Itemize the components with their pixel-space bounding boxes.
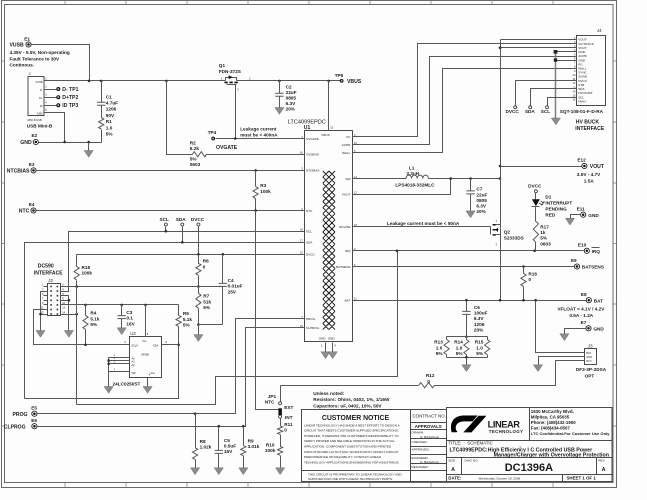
svg-text:Continous.: Continous. [10, 63, 34, 68]
svg-text:R11: R11 [284, 422, 293, 427]
wire EEPROM pullup rail [61, 304, 179, 306]
svg-text:Fault Tolerance to 30V: Fault Tolerance to 30V [10, 56, 61, 61]
svg-text:R1: R1 [106, 119, 112, 124]
svg-text:R16: R16 [528, 271, 537, 276]
svg-text:20%: 20% [476, 209, 486, 214]
ground arrow E7 [560, 334, 569, 341]
node R6 tap [197, 253, 200, 256]
node SCL junction [165, 230, 168, 233]
svg-text:5%: 5% [476, 351, 484, 356]
svg-text:Manager/Charger with Overvolta: Manager/Charger with Overvoltage Protect… [494, 452, 609, 458]
resistor R8 1.02k [195, 414, 197, 448]
svg-text:E8: E8 [581, 292, 587, 297]
resistor R3 100k [255, 171, 257, 187]
wire U2 address pins tie [109, 357, 130, 359]
svg-text:PROG: PROG [13, 412, 28, 418]
wire R7 bottom to C4 bottom [199, 324, 223, 326]
svg-text:R15: R15 [475, 340, 484, 345]
wire DVCC net [77, 254, 305, 256]
svg-text:51k: 51k [203, 299, 211, 304]
svg-text:J2: J2 [48, 278, 53, 283]
node J1-GND junction [63, 141, 66, 144]
node SDA stub [529, 106, 532, 109]
svg-text:DVCC: DVCC [528, 183, 542, 188]
svg-text:TECHNOLOGY APPLICATIONS ENGINE: TECHNOLOGY APPLICATIONS ENGINEERING FOR … [304, 460, 400, 464]
node C7 tap [469, 177, 472, 180]
title block [447, 408, 613, 482]
svg-text:5.1k: 5.1k [90, 316, 100, 321]
svg-text:CIRCUIT BOARD LAYOUT MAY SIGNI: CIRCUIT BOARD LAYOUT MAY SIGNIFICANTLY A… [304, 450, 399, 454]
svg-text:R12: R12 [426, 373, 435, 378]
ground arrow R9 [239, 468, 248, 475]
terminal E7 GND [586, 326, 591, 331]
svg-text:OPT: OPT [585, 374, 595, 379]
svg-text:Fax: (408)434-0507: Fax: (408)434-0507 [531, 425, 571, 430]
capacitor C2 22uF [279, 81, 281, 94]
svg-text:IRQ: IRQ [592, 249, 601, 254]
svg-text:3.5V - 4.7V: 3.5V - 4.7V [577, 172, 601, 177]
svg-text:C1: C1 [106, 94, 112, 99]
svg-text:22uF: 22uF [286, 90, 297, 95]
svg-text:C6: C6 [474, 305, 480, 310]
node J3 BAT tap [534, 299, 537, 302]
svg-text:TECHNOLOGY: TECHNOLOGY [489, 429, 523, 434]
resistor R9 3.01k [243, 427, 245, 446]
ground arrow U2 Vss [143, 387, 152, 394]
wire PROG net [38, 319, 305, 414]
wire JP1 top to NTC-ext line [280, 386, 282, 402]
svg-text:1206: 1206 [106, 107, 117, 112]
node R4 bottom junction [84, 344, 87, 347]
capacitor C3 0.1uF [121, 305, 123, 316]
wire U2 SDA to R5 [162, 344, 179, 346]
customer notice block [302, 410, 447, 482]
svg-text:4.7uF: 4.7uF [106, 101, 118, 106]
svg-text:PENDING: PENDING [545, 206, 567, 211]
wire U1 VBUS pin13 [328, 81, 330, 131]
svg-text:E5: E5 [31, 405, 37, 410]
wire J1 D- to TP1 [45, 89, 57, 91]
svg-text:E2: E2 [32, 133, 38, 138]
svg-text:NTC: NTC [586, 359, 591, 363]
crosshatch no-connect column inside U1 [323, 171, 335, 330]
wire VOUT main vertical [500, 40, 502, 225]
svg-text:R17: R17 [540, 224, 549, 229]
svg-text:THIS CIRCUIT IS PROPRIETARY TO: THIS CIRCUIT IS PROPRIETARY TO LINEAR TE… [308, 472, 402, 476]
svg-text:1.02k: 1.02k [200, 445, 212, 450]
svg-text:C7: C7 [476, 187, 482, 192]
wire J4 GND rows [556, 51, 577, 53]
svg-text:CHECKED:: CHECKED: [412, 440, 428, 444]
wire U1 GND pins [325, 343, 327, 352]
svg-text:5%: 5% [190, 156, 198, 161]
svg-text:0: 0 [203, 264, 206, 269]
ground arrow battery sense [466, 358, 468, 365]
svg-text:EXT: EXT [284, 405, 293, 410]
wire J2 pin3/13 ground [41, 292, 44, 331]
svg-text:R14: R14 [454, 340, 463, 345]
svg-text:0.1: 0.1 [126, 316, 133, 321]
svg-text:R6: R6 [203, 259, 209, 264]
svg-text:BAT: BAT [586, 351, 591, 355]
wire J2 pin14 to DVCC drop [61, 314, 77, 316]
svg-text:0: 0 [427, 379, 430, 384]
svg-text:ACPR: ACPR [342, 143, 351, 147]
node U1 VBUS tap [327, 80, 330, 83]
ground arrow C5 [214, 468, 223, 475]
svg-text:NTCBIAS: NTCBIAS [7, 169, 30, 175]
svg-text:OVSENS: OVSENS [306, 153, 319, 157]
svg-text:6.3V: 6.3V [476, 204, 487, 209]
svg-text:DATE:: DATE: [448, 476, 462, 481]
svg-text:2903B: 2903B [141, 353, 149, 357]
svg-text:DVCC: DVCC [506, 109, 520, 114]
svg-text:16V: 16V [126, 321, 135, 326]
svg-text:E7: E7 [581, 320, 587, 325]
svg-text:SDA: SDA [153, 343, 159, 347]
svg-text:SHEET 1 OF 1: SHEET 1 OF 1 [567, 476, 597, 481]
svg-text:SCLK: SCLK [131, 343, 138, 347]
ground arrow R10 [276, 468, 285, 475]
node U2 Vcc tap [144, 304, 147, 307]
svg-text:Phone: (408)432-1900: Phone: (408)432-1900 [531, 420, 576, 425]
svg-text:HV BUCK: HV BUCK [576, 119, 600, 125]
resistor R17 1k [535, 207, 537, 222]
terminal E6 CLPROG [32, 424, 37, 429]
svg-text:16V: 16V [224, 449, 233, 454]
svg-text:Vcc: Vcc [142, 339, 147, 343]
svg-text:L1: L1 [409, 165, 415, 170]
svg-text:1206: 1206 [474, 322, 485, 327]
wire E7 to ground [565, 329, 586, 334]
svg-text:IRQ: IRQ [345, 249, 351, 253]
svg-text:5%: 5% [106, 132, 114, 137]
svg-text:INTERFACE: INTERFACE [575, 126, 604, 132]
svg-text:PROG: PROG [306, 317, 316, 321]
node R9 tap [242, 425, 245, 428]
wire SDA net [25, 243, 305, 399]
svg-text:GND: GND [593, 326, 604, 331]
node R6-R7 junction [197, 285, 200, 288]
svg-text:D- TP1: D- TP1 [62, 87, 78, 93]
svg-text:Vss: Vss [151, 371, 156, 375]
svg-text:5%: 5% [183, 323, 191, 328]
transistor Q2 S2333DS [493, 225, 496, 235]
wire NTC drop to JP1 [256, 211, 279, 410]
resistor R15 1.0 [485, 340, 490, 355]
node VOUT-L1 junction [450, 177, 453, 180]
svg-text:Q1: Q1 [219, 63, 226, 68]
node DVCC stub [514, 106, 517, 109]
svg-text:VFLOAT = 4.1V / 4.2V: VFLOAT = 4.1V / 4.2V [557, 306, 605, 311]
svg-text:NTCBIAS: NTCBIAS [306, 169, 319, 173]
node C6 tap [465, 299, 468, 302]
terminal E4 NTC [31, 208, 36, 213]
resistor R4 5.1k [85, 305, 87, 316]
wire R18 bottom continues to bottom route [76, 287, 78, 405]
svg-text:OVGATE: OVGATE [216, 145, 238, 151]
wire VBUS rail J1 to Q1 [45, 80, 226, 82]
terminal E10 IRQ [584, 248, 589, 253]
svg-text:0: 0 [284, 428, 287, 433]
ground arrow U2 address [104, 387, 113, 394]
svg-text:Milpitas, CA 95035: Milpitas, CA 95035 [531, 414, 570, 419]
svg-text:SUPPLIED FOR USE WITH LINEAR T: SUPPLIED FOR USE WITH LINEAR TECHNOLOGY … [308, 477, 393, 481]
svg-text:E9: E9 [571, 258, 577, 263]
svg-text:Unless noted:: Unless noted: [313, 391, 344, 396]
wire J4 DVCC [516, 81, 577, 106]
ground arrow C2 [275, 108, 284, 115]
svg-text:R4: R4 [90, 311, 96, 316]
svg-text:J3: J3 [588, 343, 593, 348]
svg-text:SCL: SCL [160, 217, 170, 222]
wire U2 Vcc [145, 305, 147, 337]
svg-text:SIZE: SIZE [448, 459, 455, 463]
svg-text:VERIFY PROPER AND RELIABLE OPE: VERIFY PROPER AND RELIABLE OPERATION IN … [304, 439, 395, 443]
resistor R18 100k [76, 255, 78, 267]
terminal E11 GND [581, 212, 586, 217]
svg-text:NTC: NTC [306, 209, 313, 213]
resistor R2 6.2k [193, 152, 207, 157]
svg-text:D+: D+ [39, 96, 43, 100]
svg-text:U2: U2 [130, 331, 136, 336]
svg-text:DC1396A: DC1396A [505, 462, 553, 474]
ground arrow J4 [551, 118, 560, 125]
wire WALL net to J4 [353, 69, 577, 153]
ground arrow USB GND [88, 143, 90, 151]
resistor R13 1.0 [447, 336, 488, 338]
node SCL stub [546, 106, 549, 109]
svg-text:E11: E11 [577, 206, 585, 211]
wire GND rail [39, 142, 102, 144]
svg-text:BAT: BAT [345, 299, 351, 303]
resistor R14 1.0 [464, 340, 469, 355]
svg-text:D-: D- [40, 88, 43, 92]
terminal E9 BATSENS [574, 264, 579, 269]
capacitor C5 0.5uF [218, 427, 220, 451]
svg-text:VOUT: VOUT [342, 192, 351, 196]
svg-text:WALL: WALL [342, 151, 351, 155]
wire CLPROG net [38, 328, 305, 427]
resistor R11 0 [280, 419, 282, 426]
ground arrow C7 [466, 211, 475, 218]
node J4 GND junction [554, 50, 558, 54]
wire J3 BAT line [536, 301, 585, 353]
resistor R5 5.1k [178, 305, 180, 316]
svg-text:J4: J4 [597, 28, 602, 33]
svg-text:0: 0 [528, 277, 531, 282]
svg-text:GND: GND [328, 337, 336, 341]
svg-text:R18: R18 [82, 265, 91, 270]
test point TP3 [56, 103, 60, 107]
ground arrow R7 [198, 325, 200, 335]
svg-text:ID: ID [40, 104, 43, 108]
svg-text:TITLE:: TITLE: [448, 440, 461, 445]
node bank bottom center [465, 356, 468, 359]
terminal E12 VOUT [582, 163, 587, 168]
svg-text:R13: R13 [434, 340, 443, 345]
svg-text:APPROVALS: APPROVALS [415, 424, 442, 429]
svg-text:1.0: 1.0 [106, 125, 113, 130]
svg-text:E1: E1 [24, 36, 30, 41]
terminal E5 PROG [32, 411, 37, 416]
svg-text:6.2k: 6.2k [190, 146, 200, 151]
wire E11 to ground [571, 215, 581, 219]
svg-text:PERFORMANCE OR RELIABILITY.: PERFORMANCE OR RELIABILITY. CONTACT LINE… [304, 455, 382, 459]
svg-text:IDGATE: IDGATE [339, 225, 350, 229]
node R8 tap [194, 412, 197, 415]
svg-text:6.3V: 6.3V [286, 101, 297, 106]
svg-text:R7: R7 [203, 294, 209, 299]
svg-text:ID TP3: ID TP3 [62, 103, 78, 109]
node VOUT vertical junction [499, 177, 502, 180]
svg-text:20%: 20% [474, 328, 484, 333]
node IRQ-DC590 junction [396, 250, 399, 253]
svg-text:E4: E4 [29, 202, 35, 207]
wire BAT net [353, 300, 587, 302]
wire SDA bottom route to U2 [25, 345, 179, 399]
svg-text:Resistors: Ohms, 0402, 1%, 1/1: Resistors: Ohms, 0402, 1%, 1/16W [313, 397, 390, 402]
svg-text:HOWEVER, IT REMAINS THE CUSTOM: HOWEVER, IT REMAINS THE CUSTOMER'S RESPO… [304, 434, 399, 438]
svg-text:24LC025I/ST: 24LC025I/ST [113, 381, 141, 386]
node R17 bottom junction [533, 250, 536, 253]
svg-text:CLPROG: CLPROG [306, 326, 320, 330]
svg-text:R8: R8 [200, 439, 206, 444]
svg-text:D+TP2: D+TP2 [62, 95, 78, 101]
svg-text:OVGATE: OVGATE [306, 137, 319, 141]
svg-text:5%: 5% [90, 322, 98, 327]
resistor R1 1.0 [99, 118, 104, 130]
test point TP5 VBUS [340, 79, 344, 83]
wire Q1 gate to OVGATE [235, 85, 237, 139]
node E12 junction [499, 165, 502, 168]
svg-text:E12: E12 [577, 158, 586, 163]
node VBUS-E1 junction [88, 80, 91, 83]
node SDA test point [181, 223, 184, 226]
svg-text:MINI-B USB: MINI-B USB [28, 118, 42, 122]
svg-text:E6: E6 [31, 418, 37, 423]
svg-text:A: A [602, 467, 606, 473]
svg-text:FDN-372S: FDN-372S [219, 69, 241, 74]
wire J2 pin6/8 ground [61, 296, 69, 331]
wire IRQ net [353, 250, 584, 252]
wire E1 VUSB to VBUS rail [32, 45, 90, 81]
terminal E2 GND [33, 139, 38, 144]
node C5 tap [218, 425, 221, 428]
svg-text:1630 McCarthy Blvd.: 1630 McCarthy Blvd. [531, 409, 574, 414]
test point TP1 [56, 87, 60, 91]
terminal E1 VUSB [26, 42, 31, 47]
svg-text:JP1: JP1 [268, 394, 277, 399]
svg-text:0.5A - 1.2A: 0.5A - 1.2A [569, 313, 593, 318]
node SCL test point [164, 223, 167, 226]
svg-text:GND: GND [20, 140, 32, 146]
resistor R12 0 [419, 383, 435, 388]
svg-text:NTC: NTC [19, 209, 30, 215]
wire OVGATE net [216, 138, 305, 140]
svg-text:D1: D1 [545, 194, 551, 199]
svg-text:5.1k: 5.1k [183, 317, 193, 322]
svg-text:A: A [451, 467, 455, 473]
ground arrow J3 GND [533, 365, 542, 372]
diode D1 LED red [535, 193, 537, 200]
svg-text:CIRCUIT THAT MEETS CUSTOMER-SU: CIRCUIT THAT MEETS CUSTOMER-SUPPLIED SPE… [304, 429, 399, 433]
node C2 tap [278, 80, 281, 83]
svg-text:100k: 100k [260, 189, 271, 194]
svg-text:must be < 400nA: must be < 400nA [240, 133, 278, 138]
node R4 top [84, 304, 87, 307]
svg-text:LPS4018-332MLC: LPS4018-332MLC [395, 182, 435, 187]
svg-text:0603: 0603 [540, 241, 551, 246]
svg-text:TP4: TP4 [208, 130, 217, 135]
svg-text:0603: 0603 [190, 162, 201, 167]
node NTC-R3 junction [254, 209, 257, 212]
wire NTC-external line [281, 385, 419, 387]
svg-text:1.5A: 1.5A [584, 178, 595, 183]
node R3 top [254, 169, 257, 172]
wire VOUT pin to L1 output [353, 179, 451, 195]
svg-text:BATSENS: BATSENS [336, 265, 350, 269]
svg-text:DESIGNER:: DESIGNER: [412, 465, 429, 469]
svg-text:SW: SW [345, 177, 350, 181]
wire ACPR net to J4 [353, 57, 577, 145]
svg-text:SDA: SDA [306, 241, 313, 245]
wire J3 GND line [539, 357, 585, 365]
svg-text:A2: A2 [132, 363, 136, 367]
wire U2 WP tie [109, 371, 130, 373]
wire J1 D+ to TP2 [45, 97, 57, 99]
svg-text:50V: 50V [106, 113, 115, 118]
node R16 bottom junction [522, 299, 525, 302]
resistor R7 51k [196, 293, 201, 308]
svg-text:SCHEMATIC: SCHEMATIC [467, 440, 493, 445]
node R18 bottom [75, 285, 78, 288]
svg-text:VBUS: VBUS [321, 133, 329, 137]
svg-text:0805: 0805 [286, 96, 297, 101]
svg-text:25V: 25V [228, 289, 237, 294]
wire IRQ-DC590 route [77, 251, 398, 405]
svg-text:100uF: 100uF [474, 311, 488, 316]
svg-text:INTERFACE: INTERFACE [34, 271, 63, 277]
wire VC net to J4 [353, 44, 577, 137]
node R7 bottom [197, 323, 200, 326]
svg-text:0.01uF: 0.01uF [228, 284, 243, 289]
svg-text:DF3-3P-2DSA: DF3-3P-2DSA [576, 367, 607, 372]
svg-text:SCL: SCL [306, 230, 312, 234]
wire J1 ID to TP3 [45, 105, 57, 107]
svg-text:100k: 100k [82, 271, 93, 276]
wire E12 VOUT [501, 166, 582, 168]
svg-text:LINEAR TECHNOLOGY HAS MADE A B: LINEAR TECHNOLOGY HAS MADE A BEST EFFORT… [304, 423, 401, 427]
svg-text:GND: GND [588, 213, 599, 218]
ground arrow U1 GND1 [321, 352, 330, 359]
svg-text:VOUT: VOUT [590, 164, 605, 170]
svg-text:VBUS: VBUS [347, 79, 362, 85]
svg-text:5%: 5% [456, 351, 464, 356]
resistor R16 0 [523, 267, 525, 274]
wire U2 Vss [147, 378, 149, 387]
node R5-SDA junction [177, 344, 180, 347]
connector J1 USB Mini-B [28, 77, 44, 116]
svg-text:5%: 5% [203, 305, 211, 310]
wire J4 SDA [531, 89, 577, 106]
node Q1 gate junction [234, 137, 237, 140]
svg-text:E3: E3 [29, 162, 35, 167]
svg-text:C5: C5 [224, 438, 230, 443]
capacitor C6 100uF [466, 301, 468, 312]
wire battery resistor bank bottom [447, 357, 488, 359]
node C1 tap [100, 80, 103, 83]
